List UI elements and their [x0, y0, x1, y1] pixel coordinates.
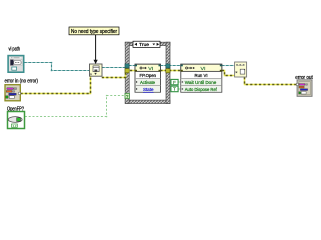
- function Open VI Reference: [90, 64, 103, 76]
- svg-text:VI: VI: [201, 66, 206, 71]
- svg-text:True: True: [139, 42, 149, 48]
- case selector label True: [133, 41, 160, 48]
- wire FP.Open to Run VI (error, olive dashed): [160, 70, 181, 72]
- svg-text:FP.Open: FP.Open: [140, 73, 157, 79]
- svg-text:VI: VI: [148, 66, 153, 71]
- svg-text:Run VI: Run VI: [195, 73, 208, 79]
- wire vi path to Open VI Reference (teal): [24, 63, 89, 71]
- wire Open VI Reference to FP.Open invoke node (vi ref, teal): [102, 67, 126, 69]
- case selector terminal [?]: [125, 93, 129, 98]
- svg-text:T: T: [173, 87, 176, 92]
- wire OpenFP? to case selector terminal (boolean, green dashed): [25, 96, 125, 117]
- svg-text:No need type specifier: No need type specifier: [71, 29, 117, 35]
- function Close Reference: [235, 62, 247, 77]
- control error in cluster icon: [5, 85, 21, 101]
- boolean constant T (Auto Dispose Ref): [171, 86, 178, 92]
- case structure border: [125, 42, 170, 103]
- wire Close Reference to error out (olive dashed): [245, 77, 298, 85]
- annotation arrow to Open VI Reference: [94, 35, 98, 64]
- svg-text:Auto Dispose Ref: Auto Dispose Ref: [185, 87, 218, 93]
- tunnel error right (olive): [166, 69, 170, 73]
- tunnel vi ref right (teal): [166, 64, 170, 68]
- control vi path (path terminal icon): [8, 56, 24, 73]
- wire boolean constant 1 to Run VI Wait Until Done (green): [178, 81, 181, 83]
- wire error in to Open VI Reference (error, olive dashed): [21, 76, 91, 93]
- boolean constant F (Wait Until Done): [171, 79, 178, 84]
- indicator error out cluster icon: [296, 80, 312, 96]
- control OpenFP? boolean switch icon: [8, 112, 25, 129]
- wire boolean constant 2 to Run VI Auto Dispose Ref (green): [178, 88, 181, 90]
- invoke node Run VI: [181, 64, 222, 93]
- free label No need type specifier: [69, 27, 119, 35]
- svg-text:error in (no error): error in (no error): [5, 79, 39, 85]
- invoke node FP.Open: [135, 64, 161, 93]
- wire Run VI to Close Reference (vi ref, teal): [222, 65, 235, 67]
- wire Run VI to Close Reference (error, olive dashed): [222, 71, 235, 76]
- wire Open VI Reference error out into case to FP.Open (olive dashed): [102, 71, 136, 78]
- svg-text:State: State: [143, 87, 154, 93]
- svg-text:F: F: [173, 80, 176, 85]
- svg-text:Activate: Activate: [140, 80, 155, 86]
- tunnel error left (olive): [125, 69, 129, 73]
- wire FP.Open to Run VI (vi ref, teal): [160, 65, 181, 67]
- svg-text:Wait Until Done: Wait Until Done: [185, 80, 217, 86]
- svg-text:vi path: vi path: [9, 46, 21, 52]
- tunnel vi ref left (teal): [125, 64, 129, 68]
